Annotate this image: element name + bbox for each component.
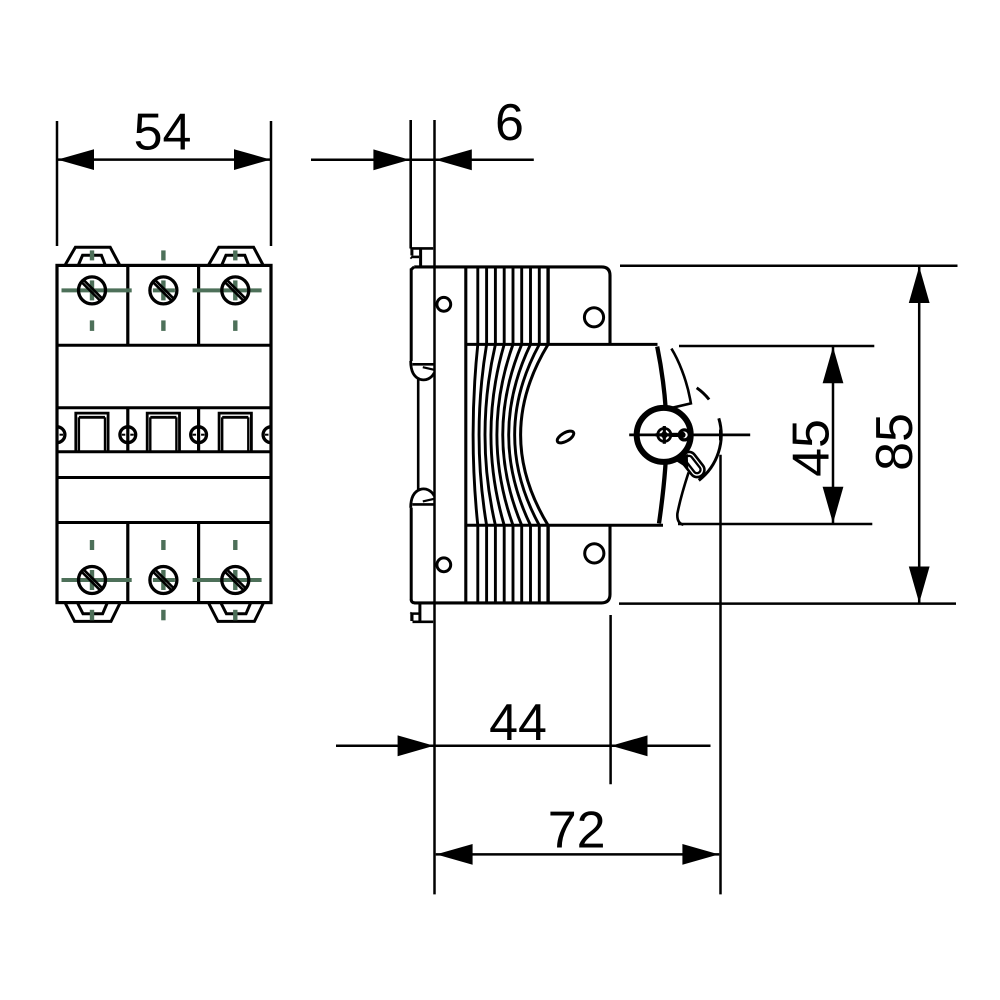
- ribs straight top block: [478, 267, 548, 345]
- arrow pointing left outside right: [611, 735, 647, 756]
- top mounting tab pole3: [209, 247, 263, 264]
- terminal screw bottom pole2: [150, 567, 177, 594]
- DIMENSION 54: [57, 121, 271, 246]
- section boundary line upper: [466, 343, 658, 346]
- knob centerline: [629, 434, 750, 437]
- breaker body outline front view: [57, 265, 271, 602]
- pole divider left middle: [126, 408, 129, 452]
- case hole bottom block: [585, 544, 604, 563]
- extension line right (from body bottom corner): [609, 615, 612, 784]
- arrow down: [909, 567, 930, 604]
- svg-text:45: 45: [783, 419, 841, 477]
- terminal screw top pole3: [222, 277, 249, 304]
- arrow up: [823, 347, 844, 384]
- arrow right: [234, 149, 271, 170]
- outer contour bottom: [677, 472, 688, 524]
- green center marks bottom screws: [62, 540, 262, 620]
- breaker side body outline: [414, 267, 610, 603]
- DIMENSION 6: [311, 149, 534, 170]
- connector blob knob to paddle: [678, 455, 688, 468]
- dimension line 72: [436, 853, 720, 856]
- arrow pointing right at right end: [682, 844, 718, 865]
- rail web line: [417, 379, 420, 491]
- horizontal line mid lower: [57, 476, 271, 479]
- bottom mounting tab pole3: [209, 604, 263, 622]
- pole divider left top: [126, 265, 129, 345]
- FRONT VIEW: [57, 265, 271, 602]
- horizontal line bottom terminal-block top: [57, 521, 271, 524]
- toggle handle pole3: [219, 413, 251, 451]
- outer contour top: [668, 349, 691, 409]
- pivot circle right of screw: [679, 430, 689, 440]
- bottom mounting tab pole1: [65, 604, 119, 622]
- terminal screw top pole1: [79, 277, 106, 304]
- top rail bracket: [410, 248, 433, 266]
- section boundary line lower: [466, 524, 663, 527]
- dimension line 44: [336, 745, 711, 748]
- breaker rear bottom clip flange: [411, 489, 435, 603]
- svg-text:6: 6: [495, 94, 524, 152]
- horizontal line toggle area bottom: [57, 450, 271, 453]
- arrow down: [823, 487, 844, 524]
- arrow left: [58, 149, 95, 170]
- arrow pointing right at rail left line: [373, 149, 409, 170]
- arrow pointing left at left end: [436, 844, 472, 865]
- svg-text:54: 54: [134, 104, 192, 162]
- phillips screw in knob: [656, 426, 674, 444]
- DIMENSION 44: [336, 615, 711, 784]
- DIMENSION 45: [678, 346, 874, 524]
- arrow up: [909, 267, 930, 304]
- extension line bottom: [619, 602, 956, 605]
- dimension line 6: [311, 159, 534, 162]
- dimension line 45: [832, 346, 835, 524]
- dimension line 54: [57, 158, 271, 161]
- svg-text:44: 44: [489, 694, 547, 752]
- top mounting tab pole1: [65, 247, 119, 264]
- dimension line 85: [918, 266, 921, 604]
- pole divider right top: [197, 265, 200, 345]
- terminal screw bottom pole1: [79, 567, 106, 594]
- pole divider right bottom: [197, 523, 200, 603]
- DIMENSION 72: [436, 455, 721, 895]
- arrow pointing right outside left: [398, 735, 434, 756]
- terminal screw top pole2: [150, 277, 177, 304]
- center tick at 72 extension: [719, 430, 722, 441]
- rail extension line left (6 dim): [409, 120, 412, 249]
- rotation arc dashes: [697, 388, 722, 481]
- toggle handle pole2: [147, 413, 179, 451]
- extension line top: [620, 264, 958, 267]
- toggle handle pole1: [76, 413, 108, 451]
- curved ribs middle section: [473, 344, 548, 525]
- ribs straight bottom block: [478, 525, 548, 603]
- extension line bottom: [678, 523, 872, 526]
- front face arc: [657, 347, 666, 524]
- rivet hole rear plate bottom: [437, 558, 451, 572]
- svg-text:72: 72: [548, 802, 606, 860]
- case hole top block: [584, 308, 603, 327]
- extension line right: [270, 121, 273, 246]
- breaker rear top hook flange: [411, 267, 435, 380]
- toggle paddle outer: [679, 449, 708, 480]
- toggle knob ring: [637, 408, 691, 462]
- bottom rail bracket: [410, 604, 433, 622]
- horizontal line toggle area top: [57, 406, 271, 409]
- extension line left: [56, 121, 59, 246]
- DIMENSION 85: [619, 266, 958, 604]
- pole divider left bottom: [126, 523, 129, 603]
- rivet hole rear plate top: [437, 297, 451, 311]
- extension line right (from knob center): [719, 455, 722, 895]
- terminal screw bottom pole3: [222, 567, 249, 594]
- rail mounting line (long vertical): [433, 120, 436, 894]
- pole divider right middle: [197, 408, 200, 452]
- extension line top: [679, 345, 874, 348]
- green center marks top screws: [62, 250, 262, 331]
- arrow pointing left at rail right line: [435, 149, 471, 170]
- pivot circles on dividers: [49, 427, 279, 443]
- svg-text:85: 85: [866, 413, 924, 471]
- horizontal line terminal-block bottom: [57, 344, 271, 347]
- mold mark crescent: [555, 429, 575, 445]
